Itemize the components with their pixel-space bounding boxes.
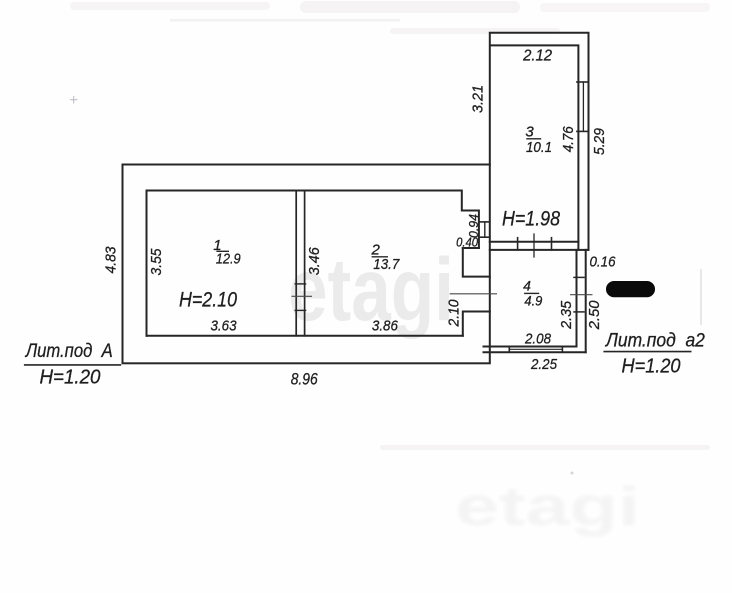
svg-text:Н=1.98: Н=1.98 — [502, 207, 560, 230]
room 3 window tick top — [577, 81, 589, 83]
section line through partition door — [292, 295, 313, 297]
partition door jamb top — [295, 283, 305, 285]
svg-text:12.9: 12.9 — [216, 250, 242, 267]
svg-text:3: 3 — [525, 123, 534, 140]
room 3 window middle line — [582, 82, 584, 131]
svg-text:Н=1.20: Н=1.20 — [40, 365, 102, 388]
scan smudge top right — [540, 3, 710, 12]
rooms 1-2 inner wall bottom — [147, 335, 463, 337]
svg-text:4.83: 4.83 — [103, 246, 120, 274]
svg-text:etagi: etagi — [455, 475, 640, 537]
svg-text:10.1: 10.1 — [526, 139, 552, 156]
svg-text:0.16: 0.16 — [590, 254, 617, 271]
room 4 inner right wall — [576, 250, 578, 347]
svg-text:4.76: 4.76 — [560, 126, 577, 153]
scan smudge top middle — [300, 1, 520, 13]
room 4 right wall opening tick top — [574, 276, 584, 278]
svg-text:3.86: 3.86 — [372, 318, 399, 335]
svg-text:3.21: 3.21 — [469, 85, 486, 113]
label bar A — [24, 364, 121, 366]
svg-text:2.12: 2.12 — [522, 47, 552, 64]
redaction black pill — [606, 281, 655, 297]
scan smudge top left — [70, 2, 270, 10]
room 4 fraction bar — [524, 292, 539, 294]
svg-text:3.55: 3.55 — [148, 248, 165, 276]
room 2 fraction bar — [372, 256, 388, 258]
room3 bottom opening tick right — [551, 238, 553, 250]
wall room2-room4 upper segment — [463, 248, 490, 277]
svg-text:Лит.под а2: Лит.под а2 — [604, 331, 705, 352]
label bar a2 — [603, 351, 691, 353]
room 3 fraction bar — [526, 138, 541, 140]
door room2 to room3 leaf — [484, 222, 486, 237]
room 3 inner bottom wall — [490, 241, 579, 243]
svg-text:Н=2.10: Н=2.10 — [179, 288, 237, 311]
rooms 1-2 inner wall top — [147, 191, 479, 336]
room 1 fraction bar — [216, 250, 229, 252]
svg-text:2.35: 2.35 — [558, 300, 575, 330]
room 4 right wall opening tick bottom — [574, 311, 584, 313]
room 4 inner top wall — [490, 249, 577, 251]
wall room2-room4 lower segment — [463, 312, 490, 336]
svg-text:3.63: 3.63 — [211, 318, 238, 335]
svg-text:13.7: 13.7 — [373, 256, 400, 273]
svg-text:4.9: 4.9 — [524, 293, 542, 309]
notch wall 0.40 bottom — [463, 247, 479, 249]
step 0.16 — [578, 249, 588, 251]
scan artifact plus mark — [70, 96, 78, 104]
section line through room4 right wall — [570, 294, 593, 296]
room3 bottom opening tick left — [517, 238, 519, 250]
partition wall line left — [295, 191, 297, 336]
scan artifact vertical line — [700, 269, 702, 325]
svg-text:0.40: 0.40 — [456, 235, 479, 250]
room 4 inner bottom wall — [484, 346, 577, 348]
room 4 bottom window tick right — [561, 347, 563, 353]
tiny speck — [571, 472, 574, 475]
svg-text:8.96: 8.96 — [291, 370, 318, 389]
scan smudge mid top — [390, 28, 560, 34]
svg-text:3.46: 3.46 — [306, 247, 323, 276]
scan smudge line — [170, 19, 400, 22]
room 3 window tick bottom — [577, 130, 589, 132]
partition door jamb bottom — [295, 309, 305, 311]
room 4 outer bottom wall — [484, 351, 586, 353]
room 4 bottom window tick left — [508, 347, 510, 353]
svg-text:4: 4 — [523, 277, 531, 293]
partition wall line right — [304, 191, 306, 336]
svg-text:2.08: 2.08 — [524, 330, 551, 347]
svg-text:5.29: 5.29 — [591, 127, 608, 155]
svg-text:2.50: 2.50 — [586, 300, 603, 331]
door room2 to room3 jamb top — [479, 221, 490, 223]
svg-text:2.10: 2.10 — [446, 299, 463, 328]
svg-text:Лит.под А: Лит.под А — [24, 340, 113, 362]
door room2 to room3 jamb bottom — [479, 236, 490, 238]
section line through room2-room4 wall — [450, 293, 497, 295]
room 4 outer right wall — [585, 250, 587, 352]
svg-text:2.25: 2.25 — [530, 356, 557, 373]
room3 bottom opening centerline — [533, 234, 535, 257]
building a2 upper outer wall — [490, 33, 589, 250]
building A outer wall — [123, 165, 490, 364]
room 3 inner wall — [491, 45, 579, 250]
room 4 bottom window middle line — [509, 348, 562, 350]
svg-text:Н=1.20: Н=1.20 — [622, 355, 681, 377]
bottom faint streak — [380, 445, 710, 450]
